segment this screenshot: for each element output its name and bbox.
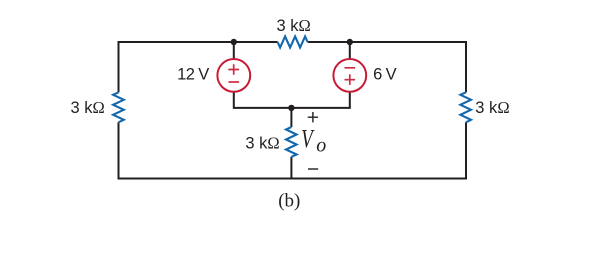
svg-text:12 V: 12 V bbox=[177, 65, 209, 83]
wire: left side lower segment bbox=[118, 122, 120, 179]
wire: top-left segment of top rail bbox=[118, 41, 278, 43]
wire: 12 V source top lead bbox=[233, 42, 235, 59]
svg-text:3 kΩ: 3 kΩ bbox=[276, 16, 310, 35]
plus symbol inside 12 V source bbox=[228, 64, 239, 75]
voltage source 12 V (circle) bbox=[217, 59, 250, 92]
label: 3 kOhm (top resistor) bbox=[276, 16, 310, 35]
label: 12 V (source value) bbox=[177, 65, 209, 83]
plus polarity mark above Vo bbox=[308, 112, 318, 122]
svg-text:3 kΩ: 3 kΩ bbox=[245, 133, 279, 152]
minus symbol inside 6 V source bbox=[345, 67, 356, 69]
resistor 3 kOhm top (horizontal zigzag) bbox=[278, 36, 308, 47]
resistor 3 kOhm right (vertical zigzag) bbox=[460, 92, 471, 122]
plus symbol inside 6 V source bbox=[345, 74, 356, 85]
svg-text:V: V bbox=[301, 125, 315, 154]
wire: middle resistor top lead bbox=[290, 108, 292, 127]
minus polarity mark below Vo bbox=[308, 168, 318, 170]
wire: top-right segment of top rail bbox=[308, 41, 467, 43]
resistor 3 kOhm middle (vertical zigzag) bbox=[286, 127, 297, 157]
svg-text:3 kΩ: 3 kΩ bbox=[71, 98, 105, 117]
wire: U-shaped bottom leads of both sources bbox=[234, 91, 350, 108]
node: junction dot at top of 6 V source bbox=[347, 39, 353, 45]
label: 3 kOhm (right resistor) bbox=[475, 98, 509, 117]
node: junction dot at top of middle resistor bbox=[288, 105, 294, 111]
wire: left side upper segment bbox=[118, 41, 120, 92]
svg-text:3 kΩ: 3 kΩ bbox=[475, 98, 509, 117]
wire: middle resistor bottom lead bbox=[290, 157, 292, 180]
wire: bottom rail bbox=[118, 178, 468, 180]
label: 3 kOhm (middle resistor) bbox=[245, 133, 279, 152]
wire: right side upper segment bbox=[465, 41, 467, 92]
svg-text:6 V: 6 V bbox=[373, 65, 397, 83]
svg-text:o: o bbox=[316, 134, 326, 156]
resistor 3 kOhm left (vertical zigzag) bbox=[113, 92, 124, 122]
label: Vo (output voltage variable) bbox=[301, 125, 326, 157]
wire: 6 V source top lead bbox=[349, 42, 351, 59]
label: 3 kOhm (left resistor) bbox=[71, 98, 105, 117]
node: junction dot at top of 12 V source bbox=[231, 39, 237, 45]
label: 6 V (source value) bbox=[373, 65, 397, 83]
voltage source 6 V (circle) bbox=[333, 59, 366, 92]
svg-text:(b): (b) bbox=[278, 191, 300, 212]
wire: right side lower segment bbox=[465, 122, 467, 179]
caption (b) bbox=[278, 191, 300, 212]
minus symbol inside 12 V source bbox=[229, 81, 240, 83]
